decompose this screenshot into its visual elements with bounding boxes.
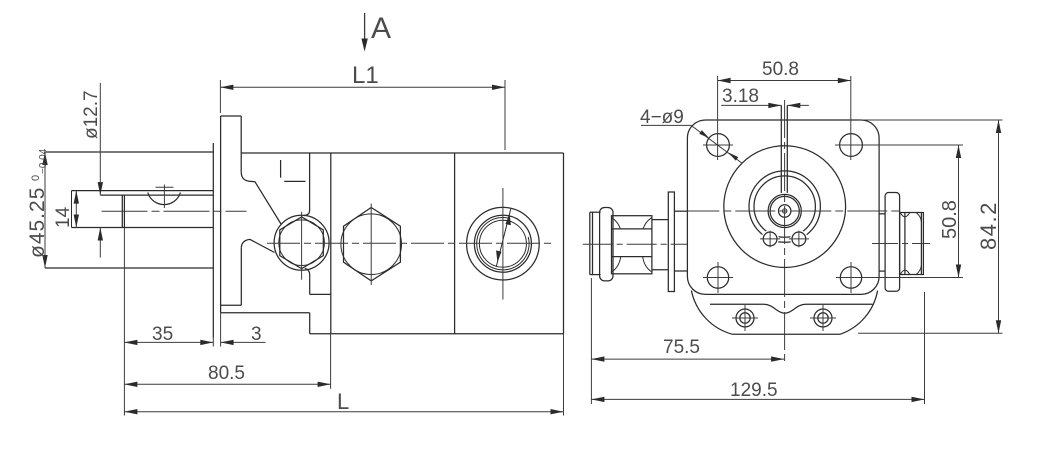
- svg-text:ø12.7: ø12.7: [81, 90, 102, 139]
- svg-text:14: 14: [53, 206, 74, 228]
- svg-text:50.8: 50.8: [762, 59, 799, 80]
- svg-text:0: 0: [30, 175, 42, 181]
- svg-text:3.18: 3.18: [722, 86, 759, 107]
- svg-text:L: L: [337, 389, 349, 414]
- svg-text:50.8: 50.8: [939, 200, 961, 239]
- svg-text:3: 3: [251, 324, 262, 345]
- svg-text:84.2: 84.2: [976, 201, 1001, 250]
- svg-text:A: A: [371, 12, 391, 45]
- svg-text:35: 35: [152, 324, 173, 345]
- svg-text:4−ø9: 4−ø9: [640, 107, 684, 128]
- svg-text:L1: L1: [352, 62, 379, 89]
- svg-text:80.5: 80.5: [208, 363, 245, 384]
- svg-text:−0.04: −0.04: [38, 148, 49, 174]
- svg-text:129.5: 129.5: [730, 380, 778, 401]
- svg-text:75.5: 75.5: [663, 337, 700, 358]
- svg-text:ø45.25: ø45.25: [26, 187, 49, 258]
